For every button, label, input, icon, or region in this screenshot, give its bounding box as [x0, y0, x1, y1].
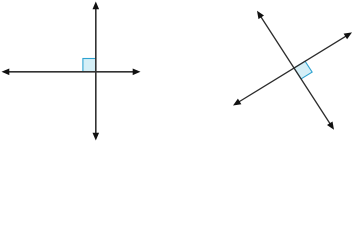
arrowhead lower-right (right figure line 1) [327, 121, 334, 129]
diagonal line 2, lower-left to upper-right (right figure) [237, 35, 347, 103]
diagonal line 1, upper-left to lower-right (right figure) [260, 15, 332, 126]
arrowhead bottom (left figure vertical line) [93, 133, 100, 141]
arrowhead lower-left (right figure line 2) [233, 99, 241, 106]
right-angle marker (right figure) [294, 61, 312, 79]
arrowhead left (left figure horizontal line) [2, 69, 10, 76]
arrowhead upper-left (right figure line 1) [257, 11, 264, 19]
vertical line (left figure) [95, 7, 97, 136]
arrowhead upper-right (right figure line 2) [344, 32, 352, 39]
arrowhead top (left figure vertical line) [93, 2, 100, 10]
arrowhead right (left figure horizontal line) [133, 69, 141, 76]
horizontal line (left figure) [7, 71, 136, 73]
right-angle marker (left figure) [83, 59, 96, 72]
